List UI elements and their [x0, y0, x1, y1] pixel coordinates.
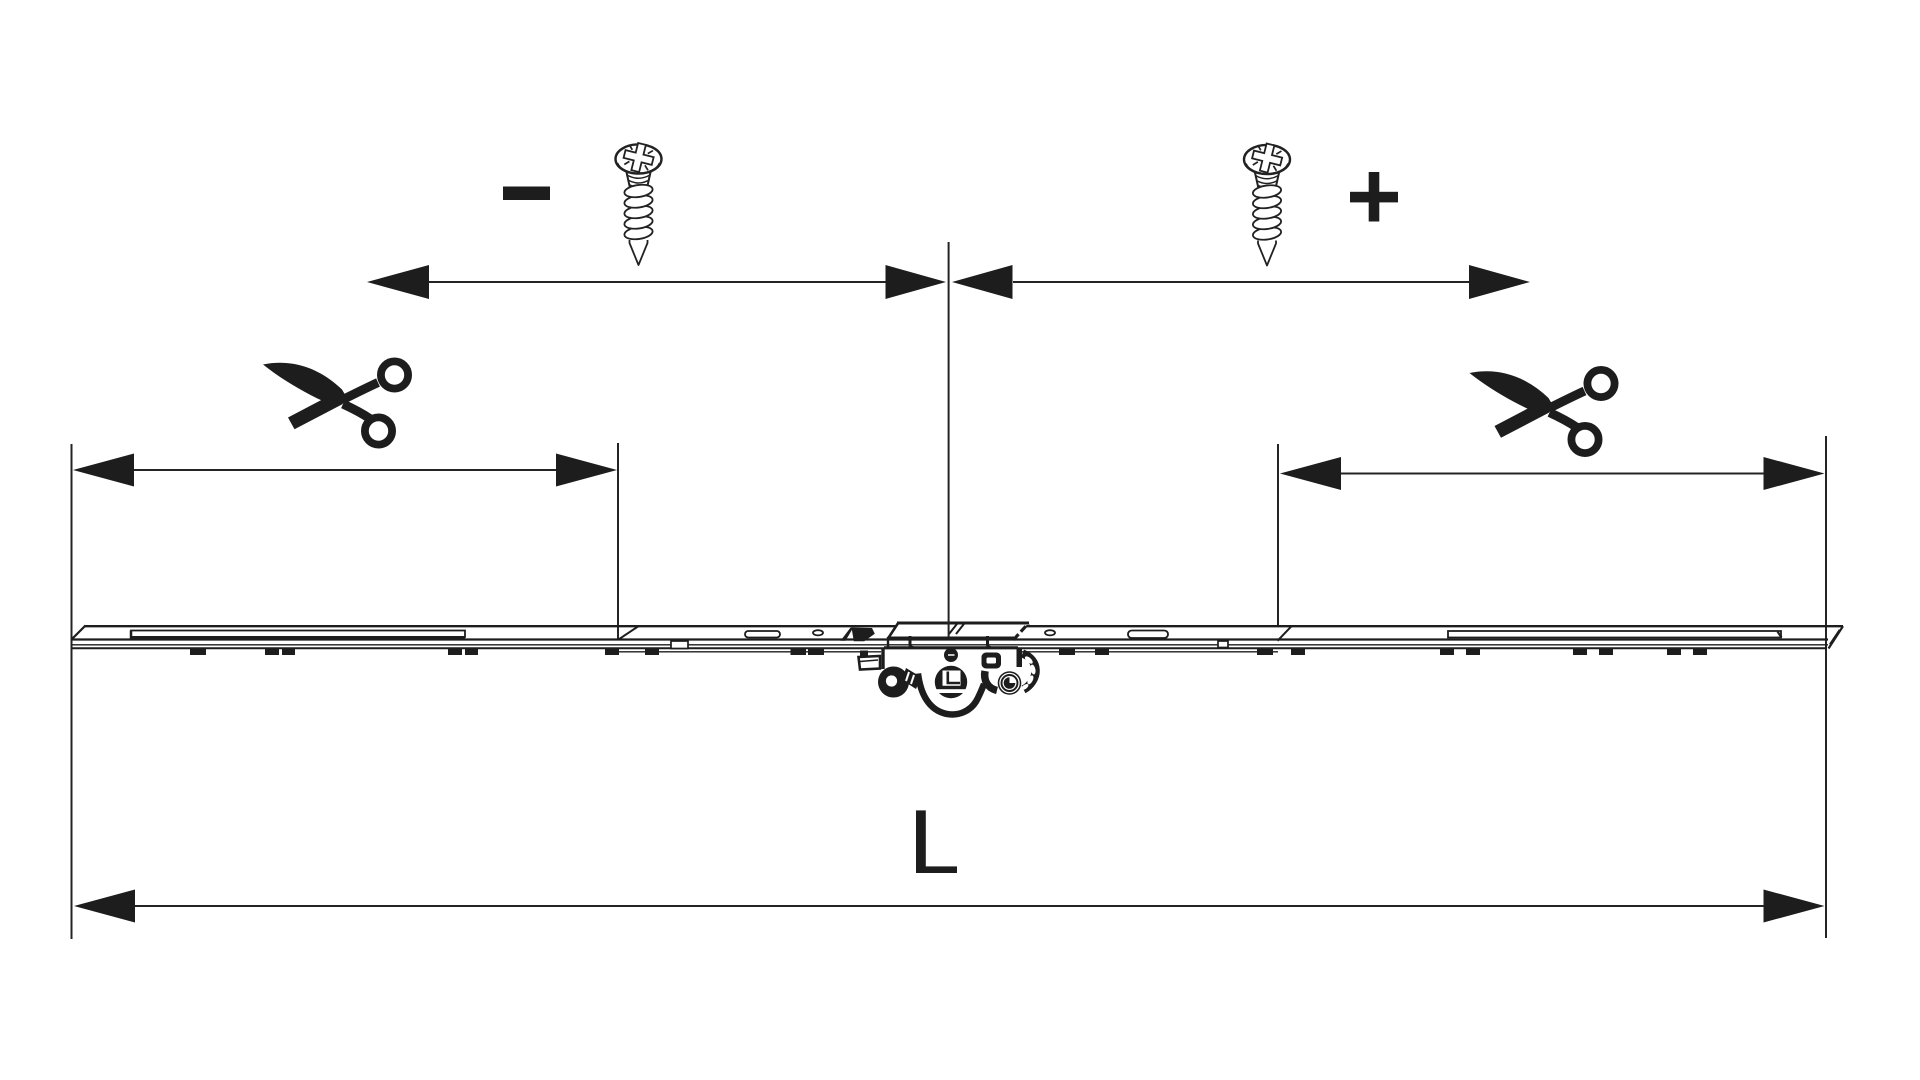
cover plate clip left [910, 636, 914, 648]
arrow left of scissors-right dimension [1280, 457, 1341, 490]
arrow right of upper-left dimension [886, 265, 947, 299]
scissors-left dimension line [133, 469, 557, 471]
centre line over plate [948, 622, 950, 637]
gearbox left edge [881, 648, 884, 669]
right round hole [1045, 630, 1055, 635]
screw left [616, 140, 662, 265]
arrow right of bottom dimension [1764, 890, 1825, 923]
left extension line [71, 444, 73, 939]
arrow right of scissors-left dimension [556, 454, 617, 487]
right notch box [1218, 641, 1228, 648]
cover plate front face left edge [887, 637, 889, 647]
black flag mark [852, 628, 875, 642]
cover plate clip right [988, 636, 992, 648]
minus sign [503, 187, 550, 201]
gearbox bottom thick line [884, 646, 1018, 649]
rail left end slant [72, 626, 86, 640]
J hook [985, 671, 997, 691]
left round hole [813, 630, 823, 635]
left joint diagonal [618, 626, 639, 640]
arrow left of bottom dimension [74, 890, 135, 923]
left long slot [131, 631, 465, 638]
arrow left of upper-left dimension [367, 265, 429, 299]
right long slot [1448, 631, 1781, 638]
central drum [935, 666, 967, 698]
scissors icon left [263, 361, 408, 444]
rail front top edge [72, 638, 1829, 640]
arrow left of scissors-left dimension [73, 454, 134, 487]
left oval hole [745, 631, 780, 638]
latch small square [860, 651, 868, 657]
rail top back edge [85, 625, 1843, 627]
drive bar edge right of gearbox [1020, 651, 1278, 653]
gearbox cover plate top face [888, 623, 1029, 640]
cover plate front edge [888, 637, 1015, 640]
arrow right of scissors-right dimension [1764, 457, 1825, 490]
drive bar edge left of gearbox [618, 651, 881, 653]
plus sign [1350, 172, 1398, 222]
screw right [1244, 141, 1290, 266]
cover plate right slant dashes [1014, 623, 1029, 640]
cover plate centre divider [949, 623, 958, 634]
left notch box [671, 641, 688, 649]
bottom dimension line [134, 905, 1764, 907]
scissors-right dimension line [1340, 473, 1764, 475]
arrow left of upper-right dimension [952, 265, 1013, 299]
right joint diagonal [1278, 626, 1292, 641]
black ball pin [944, 648, 958, 662]
tick line right scissors dimension [1277, 444, 1279, 627]
right extension line [1825, 436, 1827, 938]
rail front bottom edge [72, 644, 1829, 646]
arrow right of upper-right dimension [1469, 265, 1530, 299]
rail mounting tabs [190, 649, 1707, 656]
latch box [859, 656, 881, 670]
curved bracket [1023, 654, 1036, 690]
letter L [916, 810, 957, 873]
rail right end cap [1829, 626, 1844, 648]
U stirrup [918, 674, 984, 715]
right roller [998, 671, 1022, 695]
cover plate back edge [897, 622, 1029, 625]
right oval hole [1128, 631, 1168, 639]
upper-right dimension line [1013, 281, 1469, 283]
scissors icon right [1470, 370, 1615, 453]
cover plate left slant [888, 623, 899, 639]
rail lower bar line [72, 647, 1828, 649]
center vertical line [948, 242, 950, 634]
left roller [878, 667, 909, 698]
tick line left scissors dimension [617, 443, 619, 640]
roller link stripes [902, 668, 921, 689]
upper-left dimension line [428, 281, 887, 283]
gearbox right edge bar [1017, 648, 1023, 667]
adjustment nut [982, 653, 1002, 669]
gearbox body [859, 648, 1019, 670]
